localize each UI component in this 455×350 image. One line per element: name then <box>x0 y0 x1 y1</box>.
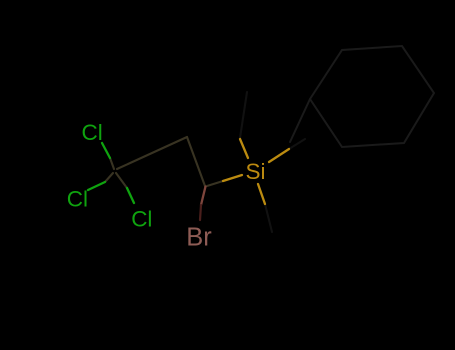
wire C2-C1 <box>187 137 205 186</box>
methyl stub up-left of Si <box>240 139 248 158</box>
methyl stub upper-right of Si <box>269 149 289 162</box>
wire C3 to Cl bottom, carbon half <box>116 173 127 188</box>
methyl carbon half, below Si <box>265 204 272 232</box>
bond C1-Br, rose half <box>201 187 206 206</box>
methyl stub down from Si <box>258 184 265 204</box>
methyl carbon half, upper right of Si <box>289 139 305 149</box>
wire C3 to Cl left, carbon half <box>105 173 113 182</box>
benzene ring (solvate molecule), faint gray <box>310 46 434 147</box>
svg-text:Cl: Cl <box>67 186 88 211</box>
wire C3 to Cl top, carbon half <box>110 158 114 169</box>
svg-text:Cl: Cl <box>82 120 103 145</box>
bond C3 to Cl bottom, green half <box>127 188 134 203</box>
bond C3 to Cl left, green half <box>88 182 105 190</box>
wire C1 to Si, carbon half <box>207 181 223 186</box>
bond C1-Br, dark red tip <box>200 205 201 220</box>
svg-text:Br: Br <box>186 224 212 252</box>
svg-text:Si: Si <box>246 159 266 184</box>
bond C3 to Cl top, green half <box>102 143 110 158</box>
wire C3-C2 <box>117 137 187 169</box>
toluene methyl bond <box>290 99 310 142</box>
methyl carbon half, up from Si <box>240 92 247 138</box>
bond C1-Si, gold half <box>223 175 242 181</box>
svg-text:Cl: Cl <box>131 206 152 231</box>
